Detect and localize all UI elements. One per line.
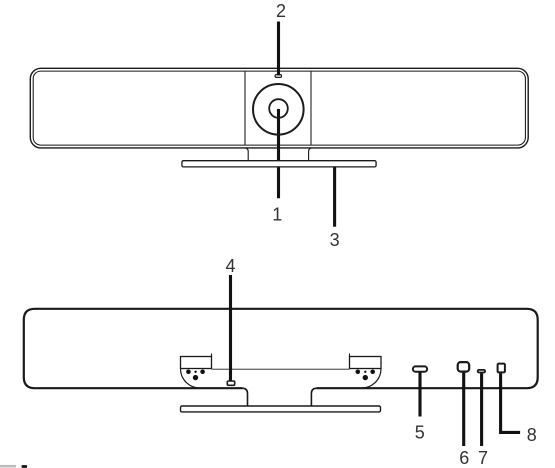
rear stand neck right edge <box>311 388 316 406</box>
front view bar outer outline <box>30 68 528 148</box>
front stand base plate <box>182 161 376 167</box>
camera module left edge <box>244 71 246 145</box>
rear stand neck left edge <box>243 388 248 406</box>
camera module right edge <box>310 71 312 145</box>
left mount bracket stub <box>211 354 213 357</box>
leader line 7 <box>480 373 483 446</box>
status LED <box>275 75 281 78</box>
port 7 (slot) <box>478 370 485 373</box>
port 6 (USB) <box>458 362 470 372</box>
power connector (callout 4 target) <box>227 381 234 385</box>
rear view bar outline <box>24 309 538 388</box>
svg-text:6: 6 <box>459 448 469 468</box>
left mount bracket plate <box>181 357 212 369</box>
svg-text:3: 3 <box>330 230 340 250</box>
svg-text:2: 2 <box>276 1 286 21</box>
svg-text:7: 7 <box>478 448 488 468</box>
right mount bracket stub <box>349 354 351 357</box>
leader line 5 <box>418 373 421 417</box>
cut-off caption fragment <box>0 465 16 468</box>
leader line 8 <box>501 373 520 432</box>
bracket connecting line <box>212 368 350 370</box>
leader line 6 <box>462 373 465 447</box>
right mount bracket arc <box>361 369 381 389</box>
right bracket screw dots <box>356 370 376 381</box>
right mount bracket plate <box>350 357 382 369</box>
left bracket screw dots <box>186 370 205 381</box>
leader line 4 <box>229 275 232 381</box>
leader line 2 <box>277 22 280 76</box>
leader line 1 from lens center <box>277 109 280 198</box>
front stand neck right edge <box>309 148 312 161</box>
svg-text:4: 4 <box>225 256 235 276</box>
port 5 (HDMI) <box>413 366 427 371</box>
left mount bracket arc <box>181 369 201 389</box>
svg-text:8: 8 <box>527 425 537 445</box>
camera lens inner circle <box>269 99 288 118</box>
svg-text:5: 5 <box>415 423 425 443</box>
front view bar inner outline <box>33 71 525 145</box>
rear stand base plate <box>181 406 381 412</box>
camera lens outer circle <box>253 84 304 135</box>
svg-text:1: 1 <box>272 204 282 224</box>
port 8 (square) <box>498 364 505 373</box>
leader line 3 <box>333 167 336 227</box>
front stand neck left edge <box>245 148 248 161</box>
